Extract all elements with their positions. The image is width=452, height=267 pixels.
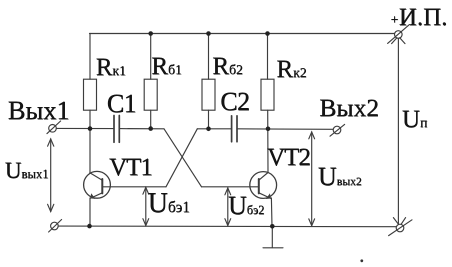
wire cross diagonal C2 to VT1 base	[166, 129, 197, 187]
node VT2 emitter / ground	[270, 224, 275, 229]
wire Rb1 bottom	[150, 110, 152, 128]
transistor VT1	[84, 171, 111, 198]
wire Vyh1 output	[56, 127, 114, 129]
node Rk2 / output 2	[266, 127, 271, 132]
label Rb1	[151, 54, 182, 79]
arrow Ube1	[143, 187, 149, 225]
terminal bottom-left	[49, 220, 62, 233]
label VT1	[109, 155, 152, 180]
label +I.P.	[391, 14, 399, 28]
terminal Vyh2	[330, 124, 345, 136]
label Ube2	[228, 193, 264, 219]
arrow Ube2	[225, 188, 231, 226]
wire Rk2 branch top drop	[267, 34, 269, 80]
stray ink speck	[360, 259, 363, 262]
node Rb2 / output 2	[206, 127, 211, 132]
wire bottom rail	[58, 225, 396, 228]
terminal bottom-right supply	[389, 218, 412, 236]
wire Vyh2 output	[237, 128, 333, 131]
node Rk1 / output 1	[88, 126, 93, 131]
node Rb1 / output 1	[148, 126, 153, 131]
arrow Uvyh1	[48, 139, 54, 212]
wire Rb1 branch top drop	[150, 34, 152, 80]
resistor Rb1	[144, 79, 157, 110]
capacitor C1	[114, 116, 119, 143]
node top Rk2	[265, 31, 270, 36]
label VT2	[267, 145, 310, 170]
label Up	[402, 107, 427, 132]
resistor Rk1	[84, 79, 97, 110]
wire cross diagonal C1 to VT2 base	[164, 129, 202, 187]
label Vyh1	[8, 97, 70, 124]
terminal Vyh1	[47, 121, 61, 134]
wire Rb2 branch top drop	[208, 34, 210, 80]
transistor VT2	[250, 172, 277, 199]
wire Rk1 branch top drop	[89, 34, 91, 80]
label Rk1	[96, 55, 126, 80]
wire C2 to cross	[197, 128, 231, 130]
wire VT2 emitter down	[270, 198, 273, 226]
resistor Rk2	[261, 79, 274, 110]
node top Rb1	[148, 31, 153, 36]
label C2	[220, 89, 249, 115]
ground	[263, 226, 283, 248]
capacitor C2	[232, 116, 237, 142]
node VT1 emitter / bottom rail	[87, 224, 92, 229]
label Rk2	[276, 57, 306, 82]
arrow Uvyh2	[309, 132, 315, 226]
label Vyh2	[319, 95, 379, 121]
wire Rk2 bottom / VT2 collector	[267, 110, 269, 172]
wire Rb2 bottom	[208, 110, 210, 129]
wire VT1 emitter down	[89, 198, 91, 226]
label Uvyh1	[5, 159, 49, 182]
wire VT1 base segment	[102, 186, 166, 188]
wire right rail	[397, 38, 399, 224]
wire Rk1 bottom / VT1 collector	[89, 110, 91, 173]
label Ube1	[148, 190, 190, 218]
resistor Rb2	[202, 79, 215, 110]
wire C1 to cross	[119, 128, 164, 130]
terminal I.P. plus supply	[388, 25, 410, 44]
label C1	[107, 91, 136, 117]
wire VT2 base segment	[202, 186, 259, 188]
node top Rb2	[206, 31, 211, 36]
wire top rail	[90, 33, 395, 35]
label Rb2	[212, 54, 243, 79]
label Uvyh2	[318, 164, 362, 190]
